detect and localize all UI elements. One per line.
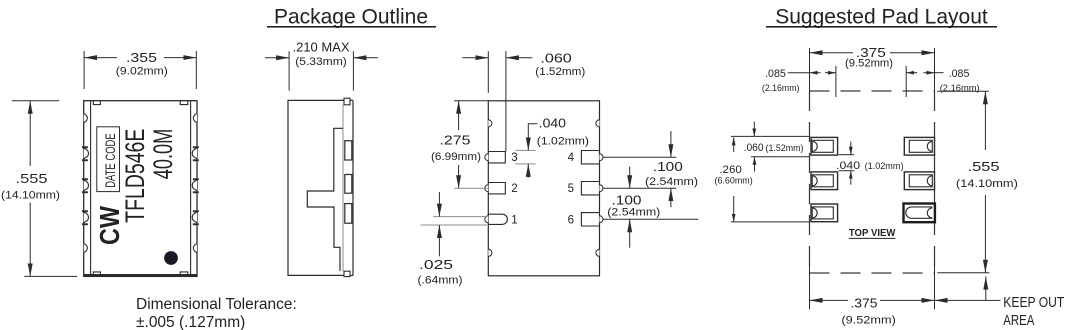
svg-text:.375: .375 [850, 295, 877, 310]
dimension .355 top of package [84, 51, 196, 89]
pin 6 [581, 213, 599, 226]
svg-text:.025: .025 [419, 257, 453, 272]
dimension .100 pins 5-6 [629, 167, 631, 248]
svg-text:Dimensional Tolerance:: Dimensional Tolerance: [136, 296, 297, 313]
package top notch left [93, 101, 100, 105]
bottom view corner notch bottom-left [488, 249, 492, 256]
side view pin B [345, 175, 352, 194]
dimension .040 pin width [515, 124, 537, 178]
dimension .085 left [788, 72, 836, 74]
side view body [288, 100, 353, 275]
svg-text:(9.02mm): (9.02mm) [116, 66, 168, 78]
side view crystal profile [307, 128, 343, 271]
pad layout dashed package outline [810, 91, 935, 273]
svg-text:.060: .060 [540, 50, 571, 65]
svg-text:(14.10mm): (14.10mm) [1, 190, 60, 202]
svg-text:(9.52mm): (9.52mm) [841, 315, 896, 327]
package right edge castellation pad 2 [192, 178, 199, 193]
pad layout outer extension lines top [810, 48, 935, 97]
svg-text:(5.33mm): (5.33mm) [295, 56, 347, 68]
package left edge corner arcs [84, 114, 88, 253]
svg-text:.085: .085 [765, 68, 786, 80]
package bottom notch right [180, 272, 188, 275]
svg-text:6: 6 [568, 214, 574, 226]
dimension .100 pins 4-5 [670, 131, 672, 207]
svg-text:(1.52mm): (1.52mm) [766, 143, 804, 154]
keep out area callout [935, 277, 1001, 301]
svg-text:40.0M: 40.0M [148, 129, 178, 180]
svg-text:.355: .355 [126, 50, 157, 65]
svg-text:.100: .100 [653, 159, 683, 174]
bottom view corner notch top-right [596, 120, 600, 127]
dimension .555 left of package [12, 101, 77, 277]
package top view inner side lines [91, 101, 191, 274]
svg-text:1: 1 [511, 214, 517, 226]
package left edge castellation pad 1 [82, 146, 89, 161]
svg-text:TOP VIEW: TOP VIEW [849, 227, 896, 239]
svg-text:(2.16mm): (2.16mm) [940, 83, 980, 94]
svg-text:.210 MAX: .210 MAX [293, 40, 350, 55]
package top notch right [180, 101, 188, 105]
left pad 3 [811, 204, 838, 222]
svg-text:(1.02mm): (1.02mm) [865, 161, 904, 172]
svg-text:TFLD546E: TFLD546E [120, 129, 150, 223]
pin 2 bump [485, 185, 489, 192]
right reference line bottom [937, 272, 989, 274]
pin 5 reference line [603, 187, 676, 189]
svg-text:(.64mm): (.64mm) [418, 274, 463, 286]
pin 5 bump [600, 185, 604, 192]
pin 6 reference line [603, 218, 698, 220]
svg-text:Suggested Pad Layout: Suggested Pad Layout [775, 6, 988, 29]
pad layout bottom extension lines [810, 262, 935, 310]
side view pin A [345, 141, 352, 160]
svg-text:DATE CODE: DATE CODE [102, 133, 118, 188]
dimension .275 left of bottom view [454, 101, 488, 188]
dimension .025 bottom left of bottom view [421, 192, 488, 256]
dimension .085 right [906, 72, 943, 74]
right pad 3 pin 1 thick [904, 204, 935, 223]
svg-text:.555: .555 [16, 171, 48, 186]
pin 4 reference line [603, 156, 676, 158]
bottom view corner notch bottom-right [596, 249, 600, 256]
bottom view corner notch top-left [488, 120, 492, 127]
svg-text:Package Outline: Package Outline [274, 6, 428, 29]
pin 6 bump [600, 216, 604, 223]
pin 1 rounded pad [488, 214, 507, 224]
package top view body outline [84, 101, 197, 277]
package left edge castellation pad 2 [82, 178, 89, 193]
package left edge castellation pad 3 [82, 210, 89, 225]
svg-text:.260: .260 [719, 164, 742, 176]
pin 3 [488, 152, 505, 163]
package right edge corner arcs [193, 114, 197, 253]
svg-text:(9.52mm): (9.52mm) [845, 57, 893, 69]
svg-text:(2.54mm): (2.54mm) [645, 176, 698, 188]
pin 3 bump [485, 154, 489, 161]
right reference line top [937, 90, 989, 92]
dimension .210 MAX [265, 51, 378, 90]
side view pin C [345, 204, 352, 224]
svg-text:4: 4 [568, 152, 575, 164]
right pad 1 [904, 137, 934, 155]
dimension .375 bottom [810, 299, 935, 301]
svg-text:.040: .040 [836, 160, 860, 172]
svg-text:(1.02mm): (1.02mm) [537, 135, 589, 147]
svg-text:.275: .275 [440, 133, 471, 148]
dimension .375 top [810, 52, 935, 54]
svg-text:(6.60mm): (6.60mm) [715, 176, 753, 187]
svg-text:.555: .555 [968, 159, 1000, 174]
side view lid tab top [344, 98, 350, 105]
svg-text:(1.52mm): (1.52mm) [535, 66, 585, 78]
side view inner wall [342, 105, 344, 271]
dimension .260 pads vertical [731, 137, 810, 222]
svg-text:.060: .060 [744, 142, 764, 154]
left pad 1 [811, 137, 838, 155]
svg-text:KEEP OUT: KEEP OUT [1003, 294, 1064, 311]
svg-text:(6.99mm): (6.99mm) [431, 151, 481, 163]
bottom view body [488, 101, 599, 276]
right pad 2 [904, 172, 934, 190]
svg-text:5: 5 [568, 183, 574, 195]
pin 1 dot [164, 251, 178, 265]
pin 2 [488, 183, 505, 194]
pin 1 bump [485, 216, 489, 223]
side view lid tab bottom [344, 271, 350, 276]
svg-text:(14.10mm): (14.10mm) [956, 178, 1018, 190]
dimension .060 top of bottom view [462, 51, 532, 151]
package right edge castellation pad 3 [192, 210, 199, 225]
svg-text:.085: .085 [949, 68, 970, 80]
svg-text:2: 2 [511, 183, 517, 195]
pin 4 bump [600, 154, 604, 161]
left pad 2 [811, 172, 838, 190]
pin 4 [581, 151, 599, 164]
svg-text:3: 3 [511, 152, 517, 164]
svg-text:(2.54mm): (2.54mm) [607, 206, 660, 218]
dimension .040 pad gap [839, 142, 855, 185]
pin 5 [581, 182, 599, 195]
svg-text:.040: .040 [539, 116, 566, 131]
svg-text:.100: .100 [612, 192, 642, 207]
dimension .060 pad height [731, 122, 810, 172]
svg-text:(2.16mm): (2.16mm) [762, 83, 800, 94]
svg-text:AREA: AREA [1003, 312, 1034, 329]
date code box [97, 127, 120, 192]
package right edge castellation pad 1 [192, 146, 199, 161]
svg-text:±.005 (.127mm): ±.005 (.127mm) [136, 314, 245, 330]
dimension .555 right [984, 91, 986, 272]
package bottom notch left [93, 272, 100, 275]
